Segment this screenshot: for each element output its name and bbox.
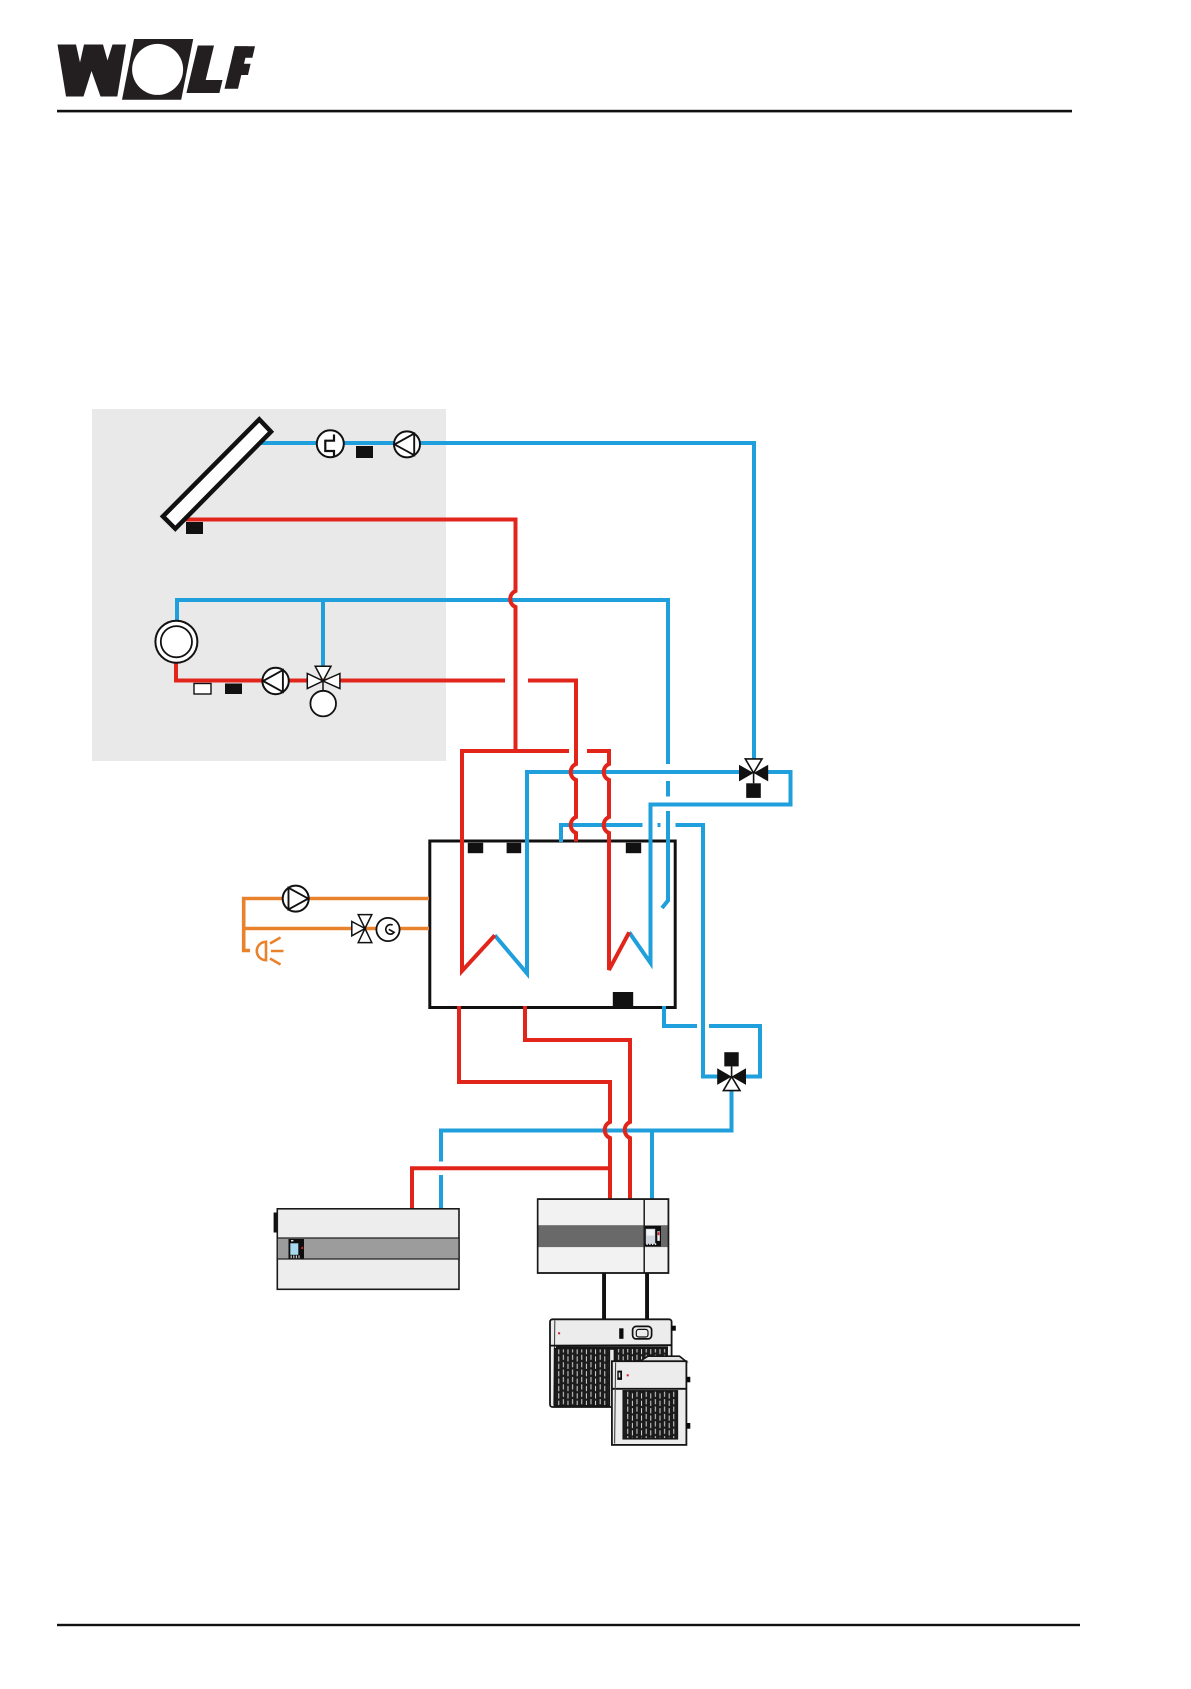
heating circuit consumer (double circle) bbox=[155, 621, 197, 663]
wire: red branch to left wall unit bbox=[412, 1168, 610, 1209]
heat pump outdoor unit 2 bbox=[612, 1356, 690, 1445]
wire: heating flow red line from mixing valve to tank top bbox=[176, 663, 505, 681]
solar zone background bbox=[92, 409, 446, 761]
wire: blue pipe tank bottom to valve V2 right port bbox=[664, 1006, 760, 1077]
solar collector bbox=[163, 419, 271, 528]
manager control module bbox=[645, 1226, 661, 1246]
cable: manager to heat pump 2 bbox=[645, 1273, 649, 1320]
wire break bbox=[664, 764, 673, 781]
valve V2: 3-way switching valve bottom bbox=[717, 1052, 746, 1090]
sensor: heating circuit white box bbox=[194, 684, 211, 695]
wire: red pipe tank bottom mid to heat pump manager bbox=[525, 1006, 630, 1199]
sensor: tank top sensor 1 bbox=[468, 843, 483, 853]
control module BM bbox=[289, 1239, 305, 1259]
wire: heating return blue line with tank dip tube bbox=[177, 600, 668, 908]
heat pump manager unit bbox=[538, 1199, 669, 1273]
thermostat symbol bbox=[376, 918, 399, 941]
wire: orange hot water line with pump bbox=[244, 899, 429, 951]
wire: blue tee down to mixing valve bbox=[321, 600, 325, 666]
wire: red left coil in tank bbox=[462, 749, 495, 971]
wire break bbox=[643, 820, 658, 831]
wire break bbox=[697, 1022, 709, 1031]
header rule bbox=[57, 110, 1072, 113]
heat pump outdoor unit 1 bbox=[550, 1319, 676, 1407]
valve: heating circuit 3-way mixing valve bbox=[307, 666, 340, 691]
wire: blue pipe valve V1 left port to tank left coil bbox=[495, 772, 740, 973]
pump: heating circuit pump bbox=[262, 668, 288, 694]
sensor: tank top sensor 2 bbox=[507, 843, 522, 853]
sensor: solar flow sensor bbox=[356, 446, 373, 458]
wire: solar blue line collector to valve V1 top bbox=[258, 443, 754, 759]
Wolf logo bbox=[58, 39, 256, 100]
pump: solar circuit pump bbox=[394, 431, 420, 457]
sensor: tank bottom sensor bbox=[613, 992, 633, 1007]
wire: blue pipe valve V1 right port loop to tank right coil bbox=[629, 772, 790, 963]
sensor: heating flow sensor bbox=[225, 684, 242, 695]
wire: blue tee down to heat pump manager bbox=[650, 1131, 654, 1200]
sensor: tank top sensor 3 bbox=[626, 843, 641, 853]
wire: blue pipe valve V2 bottom to heat pump units bbox=[441, 1090, 732, 1209]
wire: red pipe tank bottom left to heat pump manager bbox=[459, 1006, 610, 1199]
valve V1: 3-way switching valve solar/top bbox=[739, 759, 768, 798]
wire: red tee header above tank bbox=[462, 749, 569, 753]
left wall-mounted unit bbox=[274, 1209, 459, 1290]
wire: blue pipe tank top to valve V2 left port bbox=[561, 825, 718, 1077]
cable: manager to heat pump 1 bbox=[602, 1273, 606, 1320]
tap symbol bbox=[257, 942, 266, 960]
wire break bbox=[435, 1162, 447, 1176]
pump: hot water circulation pump bbox=[283, 886, 309, 912]
mixing valve actuator bbox=[310, 691, 336, 717]
wire: red right coil in tank bbox=[604, 749, 629, 970]
valve: thermostatic mixing valve bbox=[352, 915, 372, 943]
buffer storage tank bbox=[430, 841, 675, 1008]
footer rule bbox=[57, 1624, 1080, 1626]
wire: solar red line collector to riser bbox=[183, 520, 516, 752]
sensor: collector sensor bbox=[186, 522, 203, 534]
flow meter bbox=[317, 430, 344, 457]
wire: orange mixed water line bbox=[244, 927, 429, 931]
